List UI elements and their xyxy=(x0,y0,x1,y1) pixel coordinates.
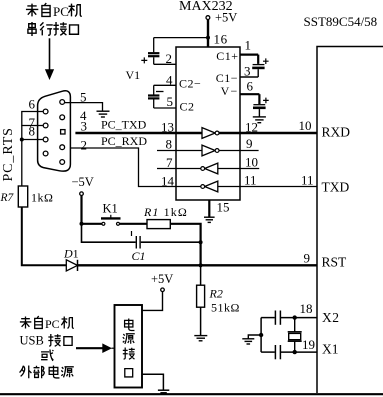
svg-text:SST89C54/58: SST89C54/58 xyxy=(304,14,378,29)
wire C1 right xyxy=(141,241,201,243)
svg-text:V1: V1 xyxy=(126,68,141,82)
node K1 left junction xyxy=(80,222,84,226)
wire R1 right xyxy=(170,224,200,265)
svg-text:10: 10 xyxy=(299,118,312,133)
svg-text:R1 1kΩ: R1 1kΩ xyxy=(143,205,188,219)
node RTS junction xyxy=(20,138,24,142)
svg-text:2: 2 xyxy=(166,51,173,66)
node C1/R1 junction xyxy=(199,240,203,244)
capacitor CX2 xyxy=(275,311,280,325)
svg-text:10: 10 xyxy=(245,155,258,170)
inverter T4 (11->14) xyxy=(201,181,218,192)
svg-text:9: 9 xyxy=(246,136,253,151)
svg-text:11: 11 xyxy=(244,173,257,188)
svg-text:1kΩ: 1kΩ xyxy=(31,191,53,205)
svg-text:R7: R7 xyxy=(0,192,15,204)
label 外部电源 xyxy=(20,366,74,379)
ground (C4) xyxy=(253,117,266,123)
svg-text:9: 9 xyxy=(304,251,311,266)
svg-text:−5V: −5V xyxy=(72,175,94,189)
svg-text:X2: X2 xyxy=(322,310,340,325)
svg-text:X1: X1 xyxy=(322,342,339,357)
svg-text:R2: R2 xyxy=(209,287,223,301)
DB9 pin 4 xyxy=(60,115,65,120)
wire junction to K1 xyxy=(82,223,102,225)
resistor R7 xyxy=(18,186,27,207)
wire R2 to ground xyxy=(200,307,202,335)
wire vertical RTS net xyxy=(21,126,23,187)
capacitor C3 (pin1-pin3) xyxy=(240,55,269,77)
-5V terminal xyxy=(80,192,84,196)
svg-text:15: 15 xyxy=(217,200,230,215)
DB9 pin 6 xyxy=(43,109,48,114)
label 来自PC机 (top) xyxy=(26,3,82,19)
node RST junction xyxy=(199,263,203,267)
capacitor C4 (pin6 V-) xyxy=(240,94,269,117)
svg-text:PC: PC xyxy=(45,317,60,331)
inverter T2 (8->9) xyxy=(202,145,219,156)
label 或 xyxy=(41,350,53,361)
svg-text:2: 2 xyxy=(81,138,88,153)
ground (crystal) xyxy=(242,339,254,344)
wire PC_RXD DB9 pin2 to MAX232 pin14 xyxy=(71,148,202,187)
wire +5V to power box xyxy=(142,292,163,311)
wire pin6 loop xyxy=(22,112,43,126)
chip MAX232 body xyxy=(176,47,240,200)
wire row 7 right stub (pin10) xyxy=(218,168,259,170)
svg-text:3: 3 xyxy=(244,64,251,79)
annotation arrow (USB power) xyxy=(76,343,115,353)
resistor R2 xyxy=(200,265,202,285)
svg-text:5: 5 xyxy=(167,94,174,109)
wire R7 to RST line xyxy=(22,207,67,265)
label 串行接口 xyxy=(28,22,79,36)
wire +5V to pin16 xyxy=(207,20,209,48)
label 电源接口 (vertical) xyxy=(123,319,135,377)
pin 15 ground xyxy=(204,200,215,222)
svg-text:K1: K1 xyxy=(103,202,118,216)
svg-text:C1: C1 xyxy=(132,249,146,263)
label 来自PC机 (bottom) xyxy=(20,316,74,331)
svg-text:14: 14 xyxy=(161,174,175,189)
wire crystal left vertical xyxy=(260,318,262,353)
svg-text:C2: C2 xyxy=(180,100,195,114)
wire row 8 stub xyxy=(157,150,202,152)
wire X1 row xyxy=(281,351,317,353)
wire RXD thick pin12 to SST xyxy=(219,132,317,135)
node X2 junction xyxy=(293,315,297,319)
svg-text:RXD: RXD xyxy=(322,125,351,140)
crystal Y1 xyxy=(288,318,302,353)
svg-text:C1−: C1− xyxy=(216,71,238,85)
svg-text:51kΩ: 51kΩ xyxy=(211,301,240,315)
ground (DB9 pin5) xyxy=(97,111,110,117)
chip SST89C54/58 xyxy=(317,47,383,394)
DB9 pin 5 xyxy=(60,100,65,105)
svg-text:USB: USB xyxy=(20,334,44,348)
svg-text:16: 16 xyxy=(214,32,228,47)
connector DB9 body xyxy=(38,91,71,171)
svg-text:19: 19 xyxy=(302,337,315,352)
wire C1 branch left xyxy=(82,224,136,242)
wire row 7 stub xyxy=(157,168,201,170)
resistor R1 xyxy=(147,220,170,229)
svg-text:1: 1 xyxy=(245,38,252,53)
inverter T3 (10->7) xyxy=(201,163,218,174)
wire row 8 right stub (pin9) xyxy=(219,150,259,152)
node pin16 junction xyxy=(206,36,210,40)
svg-text:13: 13 xyxy=(161,120,174,135)
wire X2 row xyxy=(281,317,317,319)
node cap common junction xyxy=(259,333,263,337)
DB9 pin 3 (square pad) xyxy=(61,130,65,134)
switch K1 xyxy=(101,215,121,226)
capacitor V1 (pin2) xyxy=(141,38,176,65)
svg-text:PC_RXD: PC_RXD xyxy=(101,134,147,148)
DB9 pin 8 xyxy=(43,137,48,142)
power interface box xyxy=(115,305,143,388)
svg-text:8: 8 xyxy=(166,137,173,152)
svg-text:C1+: C1+ xyxy=(216,49,238,63)
svg-text:PC: PC xyxy=(53,4,69,19)
svg-text:C2−: C2− xyxy=(179,77,201,91)
wire junction to C-V1 xyxy=(154,37,208,39)
wire pin5 to ground xyxy=(65,103,103,111)
+5V terminal (top) xyxy=(206,16,210,20)
svg-text:3: 3 xyxy=(81,119,88,134)
DB9 pin 2 xyxy=(60,145,65,150)
wire power box to ground xyxy=(142,374,163,390)
svg-text:PC_TXD: PC_TXD xyxy=(101,118,147,132)
arrow to DB9 xyxy=(45,38,54,80)
svg-text:7: 7 xyxy=(166,155,173,170)
svg-text:18: 18 xyxy=(300,301,313,316)
wire pin8 to RTS net xyxy=(22,139,43,141)
ground (power box) xyxy=(158,390,169,393)
svg-text:D1: D1 xyxy=(63,247,79,261)
capacitor CX1 xyxy=(275,345,280,359)
capacitor C2 branch (pin4-pin5) xyxy=(148,85,176,108)
svg-text:11: 11 xyxy=(301,173,314,188)
svg-text:TXD: TXD xyxy=(322,180,350,195)
svg-text:RST: RST xyxy=(322,255,348,270)
wire K1 to R1 xyxy=(120,223,148,225)
wire PC_TXD (thick) DB9 pin3 to MAX232 pin13 xyxy=(75,132,202,135)
+5V terminal (bottom) xyxy=(161,288,165,292)
wire -5V stem xyxy=(80,196,82,224)
svg-text:6: 6 xyxy=(29,97,36,112)
ground (R2) xyxy=(194,336,207,341)
inverter T1 (13->12) xyxy=(202,128,219,139)
svg-text:PC_RTS: PC_RTS xyxy=(1,127,16,181)
DB9 pin 7 xyxy=(43,123,48,128)
label USB接口 xyxy=(20,334,73,348)
DB9 pin 9 xyxy=(43,151,48,156)
svg-text:4: 4 xyxy=(166,73,173,88)
svg-text:V−: V− xyxy=(221,84,239,98)
DB9 pin 1 xyxy=(60,160,65,165)
wire RST line xyxy=(78,264,318,266)
diode D1 xyxy=(66,260,77,271)
page bottom rule xyxy=(0,393,383,395)
node X1 junction xyxy=(293,350,297,354)
svg-text:+5V: +5V xyxy=(215,11,237,25)
wire caps to ground xyxy=(248,335,261,339)
wire TXD pin11 to SST xyxy=(218,186,317,188)
svg-text:+5V: +5V xyxy=(151,272,173,286)
capacitor C1 xyxy=(132,231,141,249)
svg-text:6: 6 xyxy=(247,79,254,94)
